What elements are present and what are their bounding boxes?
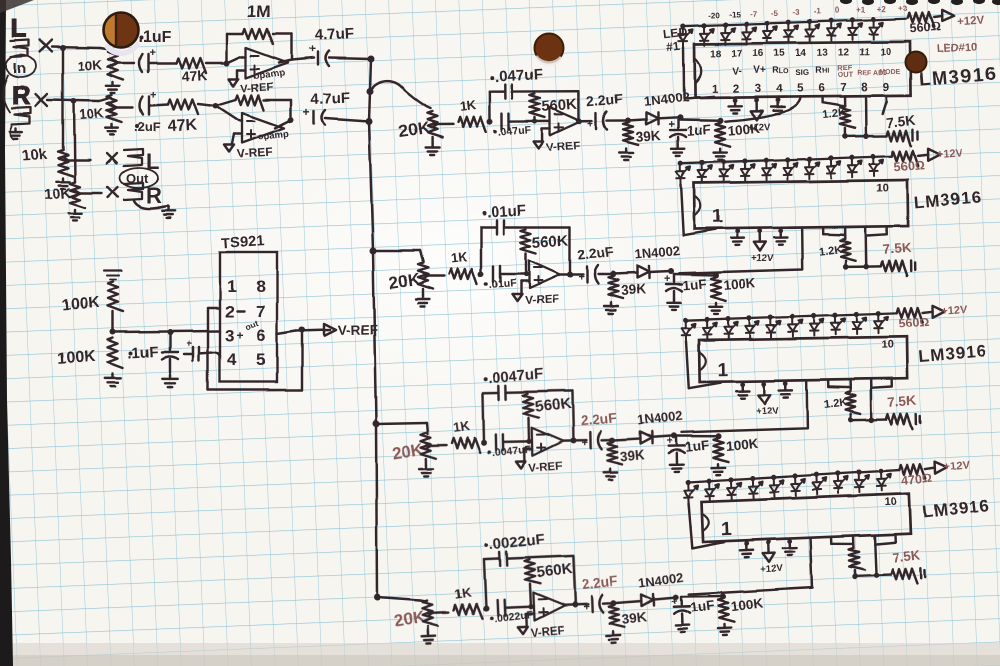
svg-text:OUT: OUT xyxy=(837,70,853,79)
svg-text:+: + xyxy=(236,328,243,342)
+12V arrow (rail #1) xyxy=(934,16,942,17)
+12V (pin3) #1 xyxy=(755,97,757,101)
svg-text:1K: 1K xyxy=(454,584,473,601)
wire node R down xyxy=(74,101,75,182)
bus vertical wire xyxy=(369,59,377,597)
svg-text:7.5K: 7.5K xyxy=(891,547,921,565)
resistor 100K (det 2) xyxy=(711,277,726,301)
capacitor 1uF (det 4) xyxy=(680,597,683,605)
stage 1: ground (pot) xyxy=(431,137,433,143)
svg-text:V-REF: V-REF xyxy=(546,140,581,154)
wire TS921 pin6 output xyxy=(277,331,296,334)
LED 9 (bar #2) xyxy=(848,155,862,178)
node V-REF divider xyxy=(112,312,114,332)
svg-text:.1uF: .1uF xyxy=(138,29,171,46)
svg-text:R: R xyxy=(12,80,31,110)
svg-text:+: + xyxy=(149,47,155,59)
capacitor (TS921 pin4 bypass) xyxy=(184,353,193,355)
svg-text:V+: V+ xyxy=(753,65,766,76)
LED rail #3 xyxy=(686,313,897,320)
svg-text:8: 8 xyxy=(861,82,868,94)
stage 1: node 39K xyxy=(625,118,631,124)
svg-text:3: 3 xyxy=(225,326,234,345)
svg-text:-20: -20 xyxy=(708,11,720,20)
stage 2: node output xyxy=(567,271,573,277)
LED 7 (bar #3) xyxy=(810,313,824,336)
svg-text:+12V: +12V xyxy=(943,459,971,473)
ground (monitor L pot) xyxy=(62,178,64,182)
svg-text:7.5K: 7.5K xyxy=(882,240,912,257)
wire 47K to node (L) xyxy=(206,62,227,64)
LM3916 #2 IC body xyxy=(694,180,908,229)
svg-text:4: 4 xyxy=(776,83,783,95)
7.5K end mark #1 xyxy=(912,130,915,141)
svg-text:+12V: +12V xyxy=(956,15,984,29)
svg-text:+: + xyxy=(581,438,588,450)
resistor 1M (feedback L) xyxy=(243,29,273,44)
svg-text:2.2uF: 2.2uF xyxy=(586,90,624,109)
svg-text:V-REF: V-REF xyxy=(241,81,274,95)
svg-text:100K: 100K xyxy=(727,121,761,139)
svg-text:1uF: 1uF xyxy=(682,276,707,293)
wire feedback up (L) xyxy=(226,34,228,63)
resistor 1.2K #2 xyxy=(844,235,847,239)
svg-text:10k: 10k xyxy=(21,145,48,164)
LM3916 #4 IC body xyxy=(702,494,910,542)
svg-text:1: 1 xyxy=(717,360,728,381)
stage 4: wire cap to opamp xyxy=(505,607,534,608)
wire 4.7uF to bus (L) xyxy=(329,58,371,59)
svg-text:47K: 47K xyxy=(181,67,207,84)
resistor 47K (R) xyxy=(168,99,198,114)
stage 1: V-REF flag xyxy=(542,127,550,129)
svg-text:560Ω: 560Ω xyxy=(893,158,925,174)
svg-text:-7: -7 xyxy=(750,9,758,18)
paper shading bottom xyxy=(0,643,1000,666)
ground (100K det 2) xyxy=(715,303,717,307)
stage 4: node detector xyxy=(673,594,679,600)
wire R input to node xyxy=(48,100,100,101)
svg-text:+2: +2 xyxy=(877,5,887,14)
stage 2: ground (pot) xyxy=(422,289,424,295)
stage 2: diode 1N4002 xyxy=(637,266,649,278)
svg-text:18: 18 xyxy=(710,49,722,60)
node 1.2K/7.5K #2 xyxy=(844,261,847,267)
LED 4 (bar #1) xyxy=(742,21,756,44)
svg-text:V-REF: V-REF xyxy=(236,145,272,161)
svg-text:+: + xyxy=(303,105,310,119)
op-amp U2 (R) xyxy=(242,113,284,143)
wire pin9 #2 xyxy=(885,226,888,234)
svg-text:8: 8 xyxy=(256,277,265,296)
stage 4: diode 1N4002 xyxy=(642,594,654,606)
LED 7 (bar #2) xyxy=(805,156,819,179)
stage 2: capacitor feedback .01uF xyxy=(496,220,498,234)
stage 1: op-amp xyxy=(550,107,581,135)
LED 8 (bar #2) xyxy=(826,155,840,178)
svg-text:1uF: 1uF xyxy=(686,122,711,139)
input jack L symbol xyxy=(11,40,29,57)
wire 47K to node (R) xyxy=(198,104,216,106)
resistor 560 ohm (rail #1) xyxy=(908,12,934,27)
svg-text:+: + xyxy=(186,339,192,350)
stage 1: resistor 39K xyxy=(623,123,638,145)
svg-text:2: 2 xyxy=(225,302,234,321)
LED 2 (bar #3) xyxy=(703,317,717,340)
stage 3: wire to diode xyxy=(612,439,640,441)
stage 1: feedback left wire xyxy=(489,92,492,122)
stage 3: ground (pot) xyxy=(425,459,428,465)
LM3916 #1 IC body xyxy=(694,42,911,98)
wire pins 6-7 #3 xyxy=(826,380,829,387)
svg-text:10: 10 xyxy=(884,496,897,508)
LED 5 (bar #2) xyxy=(762,157,776,180)
stage 1: wire diode to detector node xyxy=(658,118,680,119)
wire opamp L output xyxy=(279,60,292,63)
svg-text:MODE: MODE xyxy=(879,69,900,76)
svg-text:+12V: +12V xyxy=(761,564,785,576)
LED 6 (bar #3) xyxy=(788,314,802,337)
output jack L symbol xyxy=(124,149,143,166)
stage 2: wire diode to detector node xyxy=(649,271,671,272)
wire pin8 down #1 xyxy=(864,96,867,136)
svg-text:100K: 100K xyxy=(61,294,101,314)
ground (pin4) #4 xyxy=(788,539,791,545)
LED1 cathode wire #3 xyxy=(686,341,689,388)
stage 3: node 39K xyxy=(609,437,615,443)
stage 2: feedback left wire xyxy=(480,227,482,274)
wire pins 6-7 #1 xyxy=(821,97,824,103)
stage 4: capacitor feedback .0022uF xyxy=(498,552,501,566)
LM3916 #3 notch xyxy=(699,352,706,371)
7.5K end mark #2 xyxy=(910,261,913,271)
stage 1: diode 1N4002 xyxy=(646,113,658,125)
LED 4 (bar #3) xyxy=(746,315,760,338)
svg-text:#1: #1 xyxy=(666,39,681,54)
supply bars (top of divider) xyxy=(104,270,122,272)
ground (pin2) #1 xyxy=(733,98,736,103)
LED 3 (bar #2) xyxy=(719,159,733,182)
LED 5 (bar #4) xyxy=(769,474,784,497)
wire pin8 down #2 xyxy=(864,227,867,267)
stage 2: resistor 560K xyxy=(521,229,536,253)
LED 10 (bar #2) xyxy=(869,154,883,177)
stage 1: capacitor 2.2uF xyxy=(579,120,592,123)
ground (lower divider) xyxy=(112,374,114,378)
LED 1 (bar #1) xyxy=(679,23,693,46)
svg-text:+12V: +12V xyxy=(756,406,779,417)
svg-text:1K: 1K xyxy=(459,97,478,114)
LED1 cathode wire #4 xyxy=(689,503,693,548)
svg-text:-15: -15 xyxy=(729,10,741,19)
capacitor 1uF (det 1) xyxy=(677,120,679,128)
node 100K det 1 xyxy=(717,118,723,124)
LED 8 (bar #4) xyxy=(833,470,848,493)
stage 4: node after 1K xyxy=(483,605,489,611)
ground (1uF det 1) xyxy=(677,145,679,149)
hole punch mark 3 xyxy=(906,52,927,73)
wire pin9 #3 xyxy=(890,379,893,387)
wire pin8 down #4 xyxy=(874,535,876,575)
svg-text:10K: 10K xyxy=(77,57,103,74)
stage 4: wire to 39K node xyxy=(603,602,614,605)
stage 4: node output xyxy=(572,602,578,608)
resistor feedback (R, to output) xyxy=(216,100,236,106)
svg-text:2.2uF: 2.2uF xyxy=(579,409,617,428)
resistor 1.2K #4 xyxy=(853,544,856,548)
svg-text:100K: 100K xyxy=(723,275,757,293)
LED 5 (bar #3) xyxy=(767,314,781,337)
op-amp U1 (L) xyxy=(246,48,288,78)
svg-text:1: 1 xyxy=(711,84,718,96)
LED 2 (bar #2) xyxy=(698,160,712,183)
+12V arrow (rail #3) xyxy=(923,311,933,312)
wire tap3 to stage3 xyxy=(376,423,427,424)
stage 3: resistor 39K xyxy=(607,442,622,464)
+12V (pin3) #2 xyxy=(758,228,761,232)
svg-text:14: 14 xyxy=(795,48,807,59)
stage 1: ground (39K) xyxy=(625,149,627,153)
wire divider to TS921 pin3 xyxy=(113,331,220,332)
stage 3: wire to 39K node xyxy=(601,439,612,442)
resistor 560&#937; (rail #3) xyxy=(897,307,923,322)
svg-text:+12V: +12V xyxy=(751,253,774,264)
wire L input to node xyxy=(52,47,100,48)
wire pin8 down #3 xyxy=(869,379,872,419)
stage 2: capacitor series .01uF xyxy=(492,266,494,282)
capacitor 1uF (det 2) xyxy=(673,274,675,282)
wire pin5 SIG down #3 xyxy=(681,380,808,432)
IC TS921 body xyxy=(220,252,277,382)
svg-text:+3: +3 xyxy=(898,4,908,13)
wire L to pot 10K xyxy=(100,48,113,50)
resistor 100K (lower divider) xyxy=(108,338,123,368)
resistor 7.5K #2 xyxy=(866,265,881,268)
svg-text:1K: 1K xyxy=(452,418,471,435)
wire tap1 arc to stage1 xyxy=(370,81,430,108)
svg-text:39K: 39K xyxy=(619,447,645,464)
svg-text:+: + xyxy=(578,271,584,283)
node R opamp input xyxy=(213,103,219,109)
wire pin5 SIG down #1 xyxy=(725,97,801,122)
stage 4: resistor 39K xyxy=(609,605,625,628)
capacitor 1uF (det 3) xyxy=(675,436,678,444)
LM3916 #3 IC body xyxy=(699,337,908,382)
stage 3: op-amp xyxy=(532,427,564,456)
svg-text:-3: -3 xyxy=(792,8,800,17)
stage 2: node after 1K xyxy=(478,271,484,277)
stage 2: resistor 39K xyxy=(608,276,623,298)
LED 10 (bar #1) xyxy=(869,16,883,39)
svg-text:+: + xyxy=(150,89,156,101)
svg-text:In: In xyxy=(13,60,26,77)
X mark L input xyxy=(40,40,52,52)
svg-text:39K: 39K xyxy=(621,609,648,627)
svg-text:.047uF: .047uF xyxy=(495,66,543,86)
wire opamp inputs (R) xyxy=(216,106,236,119)
stage 4: wire feedback top xyxy=(507,557,529,560)
svg-text:12: 12 xyxy=(838,47,850,58)
svg-text:7: 7 xyxy=(256,302,265,321)
stage 2: node detector xyxy=(668,268,674,274)
ground (monitor R pot) xyxy=(74,210,76,214)
svg-text:1: 1 xyxy=(712,207,723,228)
LED 6 (bar #1) xyxy=(785,20,799,43)
svg-text:L: L xyxy=(11,13,27,43)
ground (pin4) #1 xyxy=(776,97,779,103)
svg-text:6: 6 xyxy=(256,326,265,345)
svg-text:V-REF: V-REF xyxy=(528,460,563,474)
stage 4: feedback left wire xyxy=(484,560,486,609)
wire det node 3 xyxy=(676,435,718,437)
svg-text:10: 10 xyxy=(881,339,893,351)
wire cap to 47K (L) xyxy=(149,62,176,64)
LED 2 (bar #1) xyxy=(700,23,714,46)
svg-text:47K: 47K xyxy=(167,116,198,135)
stage 3: capacitor series .0047uF xyxy=(495,435,498,451)
svg-text:39K: 39K xyxy=(620,281,646,298)
svg-text:100K: 100K xyxy=(57,348,97,368)
wire pin9 #4 xyxy=(894,534,897,542)
stage 2: V-REF flag xyxy=(521,280,529,282)
ground (1uF det 3) xyxy=(675,461,678,465)
resistor 100K (det 4) xyxy=(718,598,734,623)
svg-text:V-: V- xyxy=(732,67,742,78)
svg-text:4: 4 xyxy=(227,350,237,369)
svg-text:.01uF: .01uF xyxy=(488,277,517,291)
LED 3 (bar #3) xyxy=(724,316,738,339)
svg-text:+: + xyxy=(309,42,316,56)
LED rail #2 xyxy=(681,156,892,163)
svg-text:+12V: +12V xyxy=(936,147,963,161)
wire pin5 SIG down #4 xyxy=(687,538,813,595)
svg-text:7.5K: 7.5K xyxy=(887,393,917,410)
ground (pin4) #2 xyxy=(779,228,782,234)
hole punch mark 2 xyxy=(535,34,564,66)
stage 3: wire feedback top xyxy=(506,391,528,394)
LED 10 (bar #4) xyxy=(876,468,891,491)
stage 1: node after 1K xyxy=(487,119,493,125)
+12V arrow (rail #2) xyxy=(918,155,928,156)
stage 3: resistor 560K xyxy=(523,394,538,418)
wire det node 2 xyxy=(674,274,716,275)
resistor 7.5K #4 xyxy=(876,573,891,576)
svg-text:13: 13 xyxy=(817,48,829,59)
ground (100K det 4) xyxy=(723,625,726,629)
stage 4: ground (39K) xyxy=(612,631,615,635)
stage 2: capacitor 2.2uF xyxy=(570,273,583,275)
LED1 cathode wire #2 xyxy=(681,184,684,235)
bus node tap 1 xyxy=(367,88,374,95)
LED 4 (bar #2) xyxy=(741,158,755,181)
input jack R symbol xyxy=(12,107,31,124)
stage 2: node 39K xyxy=(610,271,616,277)
ground (pin2) #4 xyxy=(745,540,748,546)
stage 1: node output xyxy=(576,118,582,124)
svg-text:560Ω: 560Ω xyxy=(898,315,930,331)
svg-text:10: 10 xyxy=(876,182,888,194)
photo top-left corner nick xyxy=(0,0,34,13)
svg-text:16: 16 xyxy=(753,48,765,59)
svg-text:1: 1 xyxy=(721,519,733,540)
stage 4: resistor 560K xyxy=(524,559,540,584)
node 1.2K/7.5K #1 xyxy=(844,128,847,136)
stage 1: capacitor feedback .047uF xyxy=(505,85,508,99)
node L (junction dot) xyxy=(60,45,66,51)
stage 3: ground (39K) xyxy=(609,468,612,472)
LED rail #4 xyxy=(688,470,899,482)
node 100K det 3 xyxy=(715,433,721,439)
wire opamp R output xyxy=(275,120,291,128)
LED 7 (bar #4) xyxy=(812,472,827,495)
stage 2: ground (39K) xyxy=(610,302,612,306)
stage 3: wire cap to opamp xyxy=(503,441,532,444)
bus node tap 2 xyxy=(370,248,377,255)
svg-text:560Ω: 560Ω xyxy=(909,20,941,36)
LED 6 (bar #2) xyxy=(783,157,797,180)
svg-text:10: 10 xyxy=(880,47,892,58)
LED 2 (bar #4) xyxy=(705,478,720,501)
svg-text:TS921: TS921 xyxy=(221,233,265,252)
resistor 7.5K #3 xyxy=(871,418,886,421)
stage 1: wire cap to opamp xyxy=(509,120,550,123)
svg-text:.047uF: .047uF xyxy=(497,124,532,139)
V-REF flag (opamp L) xyxy=(238,69,246,71)
resistor 47K (L) xyxy=(176,58,206,73)
stage 2: wire to 39K node xyxy=(598,273,613,275)
wire cap to 47K (R) xyxy=(150,104,168,105)
svg-text:470Ω: 470Ω xyxy=(900,471,932,488)
node R output xyxy=(288,117,294,123)
stage 3: capacitor feedback .0047uF xyxy=(498,385,501,399)
svg-text:5: 5 xyxy=(256,350,265,369)
stage 4: capacitor 2.2uF xyxy=(575,603,588,606)
node 1.2K/7.5K #3 xyxy=(849,414,852,420)
ground (L pot) xyxy=(112,82,114,86)
ground (1uF det 2) xyxy=(673,299,675,303)
node 100K det 2 xyxy=(713,272,719,278)
node L opamp input xyxy=(224,60,230,66)
wire node L down xyxy=(62,48,64,150)
svg-text:10K: 10K xyxy=(43,185,72,204)
resistor 1.2K #1 xyxy=(840,106,855,128)
svg-text:1K: 1K xyxy=(450,249,469,266)
X mark monitor L xyxy=(107,153,117,163)
svg-text:2: 2 xyxy=(733,84,740,96)
ground (pin2) #2 xyxy=(736,228,739,234)
LED 9 (bar #3) xyxy=(853,311,867,334)
input ground stem xyxy=(10,126,14,139)
LM3916 #4 notch xyxy=(702,513,709,531)
svg-text:1uF: 1uF xyxy=(684,437,709,454)
LED 6 (bar #4) xyxy=(791,473,806,496)
stage 1: capacitor series .047uF xyxy=(501,114,504,130)
wire det node 4 xyxy=(681,596,723,598)
LM3916 #2 notch xyxy=(694,196,701,216)
LED 5 (bar #1) xyxy=(763,20,777,43)
stage 3: V-REF flag xyxy=(524,448,532,451)
LED 10 (bar #3) xyxy=(874,310,888,333)
wire TS921 pin2 feedback loop xyxy=(208,307,220,309)
stage 4: ground (pot) xyxy=(427,626,430,632)
resistor 560&#937; (rail #2) xyxy=(892,151,918,166)
stage 1: node detector xyxy=(677,115,683,121)
+12V arrow (rail #4) xyxy=(925,468,935,469)
ground (100K det 1) xyxy=(719,149,721,153)
LED 1 (bar #3) xyxy=(681,317,695,340)
node 1.2K/7.5K #4 xyxy=(854,570,857,576)
svg-text:7: 7 xyxy=(840,82,847,94)
